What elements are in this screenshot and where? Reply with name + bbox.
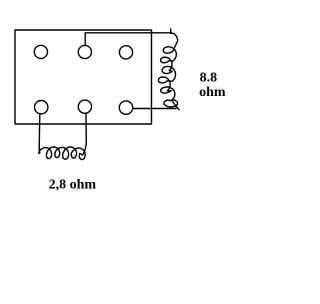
svg-text:2,8 ohm: 2,8 ohm — [49, 178, 97, 193]
svg-text:8.8: 8.8 — [200, 70, 218, 85]
svg-text:ohm: ohm — [199, 85, 226, 100]
